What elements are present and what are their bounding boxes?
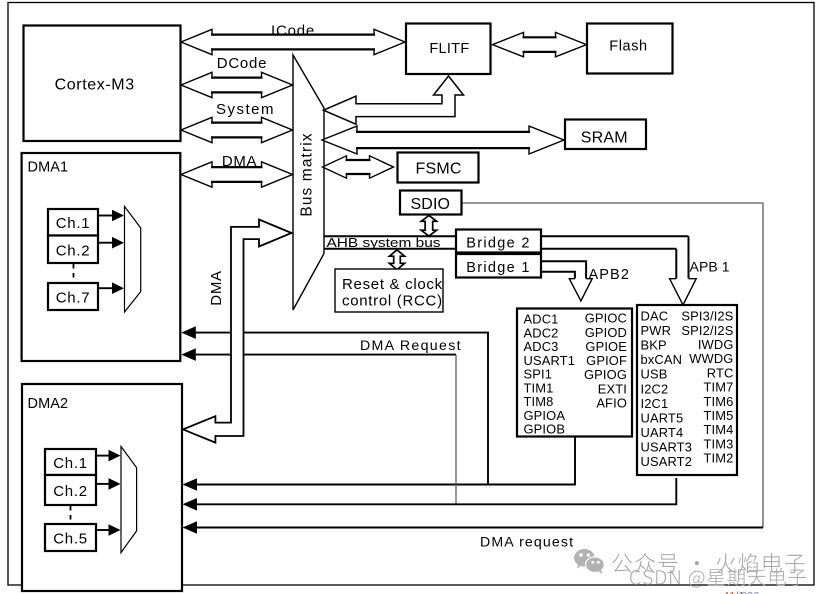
dashed link DMA1 xyxy=(73,264,75,282)
svg-text:Bus matrix: Bus matrix xyxy=(299,132,316,216)
svg-text:TIM4: TIM4 xyxy=(704,422,734,437)
DMA2 channel Ch.1 xyxy=(45,449,96,475)
DMA2 mux trapezoid xyxy=(121,447,137,553)
arrowheads into DMA1 xyxy=(181,326,196,339)
svg-text:GPIOE: GPIOE xyxy=(585,339,627,354)
block Bridge 1 xyxy=(456,254,541,278)
DMA1 mux trapezoid xyxy=(125,206,141,312)
svg-text:TIM2: TIM2 xyxy=(704,451,734,466)
svg-text:PWR: PWR xyxy=(641,323,672,338)
DCode bus double arrow xyxy=(181,72,293,97)
svg-text:DAC: DAC xyxy=(641,309,669,324)
AHB system bus lines xyxy=(324,236,689,278)
svg-text:AFIO: AFIO xyxy=(596,395,627,410)
svg-text:USART2: USART2 xyxy=(641,454,693,469)
svg-text:SRAM: SRAM xyxy=(581,130,628,147)
svg-text:EXTI: EXTI xyxy=(598,381,627,396)
DMA bus double arrow (cortex) xyxy=(181,162,293,187)
svg-text:USB: USB xyxy=(641,367,668,382)
SRAM double arrow xyxy=(322,126,564,154)
svg-text:DMA: DMA xyxy=(208,270,225,305)
svg-text:DMA Request: DMA Request xyxy=(360,338,462,354)
svg-text:DMA request: DMA request xyxy=(480,535,574,551)
svg-text:Cortex-M3: Cortex-M3 xyxy=(55,77,135,94)
DMA1 channel Ch.2 xyxy=(48,236,98,264)
FSMC double arrow xyxy=(323,156,394,178)
svg-text:GPIOF: GPIOF xyxy=(586,353,627,368)
wire: SDIO DMA request net xyxy=(193,203,763,528)
svg-text:DMA1: DMA1 xyxy=(28,159,69,175)
svg-text:WWDG: WWDG xyxy=(689,351,733,366)
svg-text:SPI3/I2S: SPI3/I2S xyxy=(681,309,733,324)
svg-text:UART5: UART5 xyxy=(641,410,684,425)
svg-text:ICode: ICode xyxy=(271,23,315,40)
svg-text:APB 1: APB 1 xyxy=(690,259,730,275)
svg-text:GPIOD: GPIOD xyxy=(585,325,627,340)
DMA1 channel Ch.1 xyxy=(48,209,98,236)
svg-text:Ch.7: Ch.7 xyxy=(56,290,91,307)
svg-text:FLITF: FLITF xyxy=(429,41,469,57)
svg-text:USART3: USART3 xyxy=(641,439,693,454)
svg-text:Ch.1: Ch.1 xyxy=(56,215,91,232)
block SDIO xyxy=(400,191,462,215)
svg-text:control (RCC): control (RCC) xyxy=(342,293,443,310)
svg-text:Bridge 2: Bridge 2 xyxy=(466,236,530,252)
DMA2 channel Ch.2 xyxy=(45,475,96,505)
svg-text:GPIOG: GPIOG xyxy=(584,367,627,382)
svg-text:GPIOB: GPIOB xyxy=(524,422,566,437)
svg-text:Reset & clock: Reset & clock xyxy=(342,276,443,293)
block Bridge 2 xyxy=(456,230,541,253)
svg-text:DMA2: DMA2 xyxy=(28,396,69,412)
APB2 hollow arrowhead xyxy=(569,279,592,301)
svg-text:TIM6: TIM6 xyxy=(704,394,734,409)
APB2 bus lines from Bridge 1 xyxy=(540,261,586,278)
svg-text:APB2: APB2 xyxy=(589,267,630,283)
svg-text:GPIOC: GPIOC xyxy=(585,311,627,326)
DMA2 channel Ch.5 xyxy=(45,524,96,551)
block DMA1 xyxy=(22,153,181,361)
svg-text:BKP: BKP xyxy=(641,338,667,353)
svg-text:bxCAN: bxCAN xyxy=(641,352,683,367)
svg-text:RTC: RTC xyxy=(707,365,734,380)
svg-text:096: 096 xyxy=(741,591,759,594)
SDIO-AHB double arrow xyxy=(421,216,436,237)
block Flash xyxy=(587,24,673,74)
svg-text:UART4: UART4 xyxy=(641,425,684,440)
wire: APB2 peripherals DMA request net xyxy=(193,333,575,485)
svg-text:TIM7: TIM7 xyxy=(704,380,734,395)
svg-text:DCode: DCode xyxy=(217,55,267,72)
svg-text:I2C2: I2C2 xyxy=(641,381,669,396)
watermark text line 1 xyxy=(612,553,804,573)
DMA1 channel Ch.7 xyxy=(48,283,98,310)
block DMA2 xyxy=(22,384,182,591)
svg-text:Ch.1: Ch.1 xyxy=(53,455,88,472)
svg-text:Bridge 1: Bridge 1 xyxy=(466,260,530,276)
block RCC xyxy=(335,269,443,312)
bent arrow: bus matrix DMA port to DMA2 xyxy=(183,220,292,443)
svg-text:AHB system bus: AHB system bus xyxy=(327,235,441,250)
watermark wechat icon xyxy=(574,549,595,569)
arrowheads into DMA2 xyxy=(183,478,198,491)
svg-text:DMA: DMA xyxy=(222,153,257,170)
svg-text:TIM5: TIM5 xyxy=(704,408,734,423)
svg-text:IWDG: IWDG xyxy=(698,337,734,352)
svg-text:ADC2: ADC2 xyxy=(524,325,559,340)
svg-text:Flash: Flash xyxy=(609,39,647,55)
svg-text:SDIO: SDIO xyxy=(410,196,450,213)
dashed link DMA2 xyxy=(70,506,72,523)
RCC-AHB double arrow xyxy=(389,250,404,270)
block Cortex-M3 xyxy=(24,26,181,142)
svg-text:System: System xyxy=(216,101,275,118)
bent arrow: bus matrix to FLITF xyxy=(324,76,464,124)
DMA2 ch arrows xyxy=(96,456,109,530)
block SRAM xyxy=(565,120,646,150)
svg-text:GPIOA: GPIOA xyxy=(524,408,566,423)
svg-text:Ch.2: Ch.2 xyxy=(53,483,88,500)
svg-text:Ch.5: Ch.5 xyxy=(53,531,88,548)
block FSMC xyxy=(398,153,479,183)
System bus double arrow xyxy=(181,117,293,142)
block APB1 peripherals xyxy=(637,305,737,475)
svg-text:SPI1: SPI1 xyxy=(524,367,553,382)
bus matrix xyxy=(293,55,324,310)
svg-text:Ch.2: Ch.2 xyxy=(56,243,91,260)
APB1 hollow arrowhead xyxy=(670,279,697,305)
block APB2 peripherals xyxy=(517,309,632,437)
ICode bus double arrow xyxy=(181,29,405,54)
DMA1 ch arrows xyxy=(98,216,112,289)
svg-text:SPI2/I2S: SPI2/I2S xyxy=(681,323,733,338)
svg-text:FSMC: FSMC xyxy=(416,161,462,178)
block FLITF xyxy=(406,24,491,75)
FLITF-Flash double arrow xyxy=(493,32,587,56)
watermark text line 2 xyxy=(630,568,806,587)
svg-text:I2C1: I2C1 xyxy=(641,396,669,411)
svg-text:TIM3: TIM3 xyxy=(704,436,734,451)
wire: APB1 peripherals DMA request net xyxy=(193,355,676,505)
